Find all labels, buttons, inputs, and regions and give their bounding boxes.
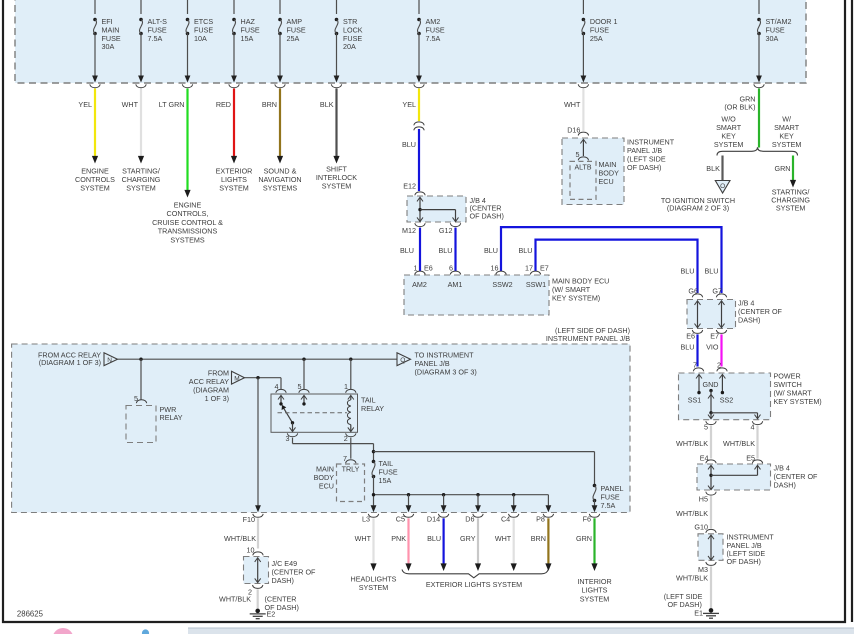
wire GRN from F6 to interior lights	[576, 518, 598, 571]
svg-text:KEY SYSTEM): KEY SYSTEM)	[552, 294, 600, 303]
wire panel fuse to F6	[592, 501, 598, 513]
svg-text:10A: 10A	[194, 34, 207, 43]
INSTRUMENT PANEL J/B big box (left side of dash)	[12, 344, 630, 513]
junction at C4	[512, 493, 515, 496]
svg-text:SYSTEM: SYSTEM	[580, 594, 610, 603]
svg-text:(DIAGRAM 2 OF 3): (DIAGRAM 2 OF 3)	[667, 203, 729, 212]
svg-text:1 OF 3): 1 OF 3)	[205, 394, 229, 403]
wire WHT/BLK pin4 to E5	[723, 426, 757, 459]
diagram frame bottom border	[2, 621, 846, 623]
wire WHT/BLK H5 to G10	[676, 496, 711, 528]
junction to F10	[256, 376, 259, 379]
system label under fuse ETCS FUSE 10A	[152, 201, 223, 245]
svg-text:INSTRUMENT PANEL J/B: INSTRUMENT PANEL J/B	[546, 334, 630, 343]
fuse F9: ST/AM2 FUSE 30A	[754, 0, 792, 88]
svg-text:SYSTEM: SYSTEM	[80, 184, 110, 193]
connector H5	[699, 492, 716, 504]
TAIL RELAY box	[271, 394, 384, 432]
svg-text:D16: D16	[567, 126, 580, 135]
svg-text:E6: E6	[686, 332, 695, 341]
INSTRUMENT PANEL J/B (LEFT SIDE OF DASH) small box	[698, 533, 774, 567]
svg-text:3: 3	[286, 434, 290, 443]
svg-text:LT GRN: LT GRN	[159, 100, 185, 109]
off-page connector O (to ignition switch)	[661, 181, 735, 213]
svg-text:4: 4	[751, 423, 755, 432]
J/B 4 (CENTER OF DASH) lower junction block	[697, 464, 818, 491]
label W/ SMART KEY SYSTEM	[772, 115, 802, 150]
svg-text:AM2: AM2	[412, 280, 427, 289]
svg-text:M12: M12	[402, 226, 416, 235]
label STARTING/CHARGING SYSTEM	[771, 188, 810, 213]
svg-text:WHT/BLK: WHT/BLK	[676, 509, 708, 518]
svg-text:20A: 20A	[343, 42, 356, 51]
svg-text:BLU: BLU	[681, 343, 695, 352]
wire WHT from C4	[495, 518, 517, 571]
wire pin3 to tail fuse	[293, 438, 374, 462]
ground E1	[694, 608, 719, 618]
wire BLU E6 to power switch pin 7	[681, 334, 698, 366]
connector E5	[746, 454, 762, 464]
fuse F2: ALT-S FUSE 7.5A	[136, 0, 167, 88]
svg-text:KEY SYSTEM): KEY SYSTEM)	[774, 397, 822, 406]
svg-text:BLU: BLU	[402, 140, 416, 149]
exit arrow D14	[441, 505, 447, 512]
svg-text:OF DASH): OF DASH)	[727, 557, 761, 566]
svg-text:EXTERIOR LIGHTS SYSTEM: EXTERIOR LIGHTS SYSTEM	[426, 580, 522, 589]
wire pin2 to TRLY pin 7	[350, 438, 352, 459]
connector G12	[439, 223, 461, 235]
svg-text:M: M	[234, 376, 239, 383]
drop wire to C5	[408, 495, 410, 506]
svg-text:2: 2	[344, 434, 348, 443]
connector E4	[700, 454, 716, 464]
connector C5	[396, 514, 414, 523]
svg-text:SYSTEM: SYSTEM	[219, 184, 249, 193]
J/C E49 (CENTER OF DASH) box	[244, 557, 317, 586]
wire WHT/BLK M3 to ground E1	[676, 566, 711, 608]
junction above tail relay pin 1	[349, 358, 352, 361]
junction at D6	[476, 493, 479, 496]
svg-text:7.5A: 7.5A	[148, 34, 163, 43]
svg-text:WHT: WHT	[122, 100, 139, 109]
fuse F7: AM2 FUSE 7.5A	[414, 0, 445, 88]
power switch internals: SS1 SS2 GND	[688, 374, 761, 419]
label (CENTER OF DASH) for E2	[265, 595, 299, 613]
svg-text:GRN: GRN	[775, 164, 791, 173]
junction at C5	[407, 493, 410, 496]
svg-text:E6: E6	[424, 264, 433, 273]
connector pin 4	[751, 421, 763, 431]
main wire from N to Q	[118, 358, 398, 360]
svg-text:YEL: YEL	[402, 100, 416, 109]
pin 2 connector	[344, 433, 356, 443]
system label under fuse STR LOCK FUSE 20A	[316, 165, 357, 191]
svg-text:5: 5	[704, 423, 708, 432]
svg-text:BLK: BLK	[706, 164, 720, 173]
svg-text:(OR BLK): (OR BLK)	[724, 103, 755, 112]
distribution bus below tail fuse	[372, 477, 549, 506]
svg-text:25A: 25A	[287, 34, 300, 43]
PANEL FUSE 7.5A	[593, 484, 624, 510]
wire BLU to E12	[402, 129, 419, 191]
svg-text:WHT/BLK: WHT/BLK	[676, 574, 708, 583]
svg-text:O: O	[720, 183, 725, 190]
svg-text:15A: 15A	[379, 476, 392, 485]
svg-text:SS1: SS1	[688, 396, 702, 405]
TAIL FUSE 15A	[372, 459, 398, 485]
diagram frame left border	[2, 0, 4, 623]
svg-text:BRN: BRN	[531, 534, 546, 543]
junction at D14	[442, 493, 445, 496]
J/B 4 (CENTER OF DASH) middle junction block	[687, 299, 783, 329]
internal pass-through G10-M3	[708, 535, 714, 560]
svg-text:F6: F6	[583, 514, 591, 523]
svg-text:ECU: ECU	[319, 482, 334, 491]
pin 3 connector	[286, 433, 298, 443]
exit arrow P8	[546, 505, 552, 512]
INSTRUMENT PANEL J/B (LEFT SIDE OF DASH) box	[562, 138, 675, 205]
svg-text:Q: Q	[400, 357, 405, 364]
drop wire to P8	[547, 495, 549, 506]
svg-text:SYSTEM: SYSTEM	[359, 583, 389, 592]
fuse F6: STR LOCK FUSE 20A	[331, 0, 362, 88]
drop wire to D6	[477, 495, 479, 506]
svg-text:SYSTEMS: SYSTEMS	[263, 184, 298, 193]
connector F10	[243, 514, 264, 524]
drop wire to C4	[513, 495, 515, 506]
wire WHT/BLK to ground E2	[219, 589, 258, 609]
svg-text:E7: E7	[540, 264, 549, 273]
exit arrow D6	[475, 505, 481, 512]
connector C4	[501, 514, 519, 523]
svg-text:BLU: BLU	[705, 267, 719, 276]
wire BLU from D14	[427, 518, 447, 571]
svg-text:30A: 30A	[766, 34, 779, 43]
svg-text:17: 17	[525, 264, 533, 273]
svg-text:C4: C4	[501, 514, 510, 523]
system label under fuse ALT-S FUSE 7.5A	[122, 167, 161, 193]
label HEADLIGHTS SYSTEM	[351, 575, 397, 593]
PWR RELAY box	[126, 405, 183, 443]
svg-text:ENGINE: ENGINE	[174, 201, 202, 210]
svg-text:SYSTEM: SYSTEM	[776, 204, 806, 213]
pin 6 (AM1)	[448, 264, 463, 290]
svg-text:G12: G12	[439, 226, 453, 235]
svg-text:RELAY: RELAY	[361, 404, 384, 413]
svg-text:WHT/BLK: WHT/BLK	[723, 439, 755, 448]
svg-text:WHT/BLK: WHT/BLK	[219, 595, 251, 604]
svg-text:RED: RED	[216, 100, 231, 109]
connector M3	[698, 562, 716, 574]
svg-text:TRANSMISSIONS: TRANSMISSIONS	[158, 227, 218, 236]
pin 1 E6 (AM2)	[412, 264, 433, 290]
svg-text:GRY: GRY	[460, 534, 476, 543]
connector G6	[688, 287, 702, 298]
wire BLK to ignition switch	[706, 156, 722, 181]
junction above tail relay pin 5	[302, 358, 305, 361]
wire YEL from AM2 fuse	[402, 89, 419, 122]
wire WHT from L3	[355, 518, 377, 571]
wire BLU SSW2 (pin 16)	[484, 227, 721, 293]
ground E2	[250, 609, 276, 619]
exit arrow L3	[371, 505, 377, 512]
svg-text:7.5A: 7.5A	[601, 501, 616, 510]
svg-text:16: 16	[491, 264, 499, 273]
svg-text:BLU: BLU	[439, 246, 453, 255]
wire from M-line down to F10	[255, 378, 261, 513]
diagram frame right border	[844, 0, 846, 623]
svg-text:DASH): DASH)	[774, 481, 796, 490]
connector F6	[583, 514, 600, 523]
svg-text:15A: 15A	[241, 34, 254, 43]
wire YEL from EFI MAIN FUSE 30A	[78, 89, 98, 164]
MAIN BODY ECU (TRLY) box	[314, 464, 365, 502]
svg-text:(DIAGRAM 1 OF 3): (DIAGRAM 1 OF 3)	[39, 358, 101, 367]
wire BLU M12 to AM2 pin 1	[400, 228, 420, 271]
connector P8	[536, 514, 553, 523]
wire BLK from STR LOCK FUSE 20A	[320, 89, 340, 164]
J/B4 internal pass-through G7-E7	[719, 301, 725, 328]
connector L3	[362, 514, 379, 523]
svg-text:E1: E1	[694, 609, 703, 618]
J/B 4 (CENTER OF DASH) upper junction block	[407, 196, 504, 222]
svg-text:H5: H5	[699, 495, 708, 504]
svg-text:SYSTEM: SYSTEM	[322, 182, 352, 191]
svg-text:CRUISE CONTROL &: CRUISE CONTROL &	[152, 218, 223, 227]
svg-text:5: 5	[576, 150, 580, 159]
fuse F5: AMP FUSE 25A	[275, 0, 306, 88]
svg-text:SYSTEM: SYSTEM	[714, 140, 744, 149]
relay mechanical link (dashed)	[278, 412, 348, 414]
svg-text:WHT: WHT	[355, 534, 372, 543]
junction at panel fuse branch	[372, 450, 375, 453]
svg-text:WHT: WHT	[495, 534, 512, 543]
wire to tail relay pin 1	[350, 359, 352, 389]
wire VIO E7 to power switch pin 2	[706, 334, 721, 366]
wire D16 to ALTB pin 5	[580, 139, 586, 156]
fuse F4: HAZ FUSE 15A	[229, 0, 260, 88]
svg-text:SSW2: SSW2	[492, 280, 512, 289]
svg-text:C5: C5	[396, 514, 405, 523]
svg-text:7.5A: 7.5A	[426, 34, 441, 43]
svg-text:OF DASH): OF DASH)	[627, 163, 661, 172]
label W/O SMART KEY SYSTEM	[714, 115, 744, 150]
svg-text:DASH): DASH)	[738, 316, 760, 325]
svg-text:PNK: PNK	[391, 534, 406, 543]
fuse F1: EFI MAIN FUSE 30A	[90, 0, 121, 88]
svg-text:BLU: BLU	[400, 246, 414, 255]
svg-text:SYSTEM: SYSTEM	[772, 140, 802, 149]
pin 1	[344, 382, 356, 393]
svg-text:P8: P8	[536, 514, 545, 523]
pin 5 connector into main body ECU	[576, 150, 589, 160]
svg-text:BLU: BLU	[519, 246, 533, 255]
svg-text:ECU: ECU	[599, 177, 614, 186]
wire WHT from ALT-S FUSE 7.5A	[122, 89, 144, 164]
svg-text:AM1: AM1	[448, 280, 463, 289]
connector 2	[248, 585, 263, 597]
svg-text:D14: D14	[427, 514, 440, 523]
connector G7	[712, 287, 726, 298]
connector D6	[465, 514, 483, 523]
svg-text:YEL: YEL	[78, 100, 92, 109]
svg-text:D6: D6	[465, 514, 474, 523]
svg-text:F10: F10	[243, 515, 255, 524]
exit arrow C5	[406, 505, 412, 512]
wire from M to tail relay pin 4	[245, 378, 282, 390]
pin 7 connector	[693, 361, 704, 372]
wire RED from HAZ FUSE 15A	[216, 89, 237, 164]
svg-text:LIGHTS: LIGHTS	[582, 586, 608, 595]
J/B4 internal E4/E5 to H5	[708, 465, 761, 490]
svg-text:G10: G10	[694, 523, 708, 532]
svg-text:SYSTEM: SYSTEM	[126, 184, 156, 193]
system label under fuse HAZ FUSE 15A	[216, 167, 253, 193]
svg-text:BLK: BLK	[320, 100, 334, 109]
system label under fuse EFI MAIN FUSE 30A	[75, 167, 115, 193]
wire to PWR relay pin 5	[140, 359, 142, 399]
connector G10	[694, 523, 716, 533]
drop wire to D14	[443, 495, 445, 506]
junction to PWR relay	[139, 358, 142, 361]
MAIN BODY ECU (W/ SMART KEY SYSTEM) box	[404, 275, 609, 315]
svg-text:(DIAGRAM 3 OF 3): (DIAGRAM 3 OF 3)	[415, 368, 477, 377]
MAIN BODY ECU inner box (ALTB)	[570, 160, 619, 199]
wire BRN from P8	[531, 518, 552, 571]
J/B4 internal circuit E12 to M12/G12	[417, 197, 459, 221]
connector E12	[403, 182, 425, 196]
svg-text:SSW1: SSW1	[526, 280, 546, 289]
off-page connector Q (to instrument panel J/B, diagram 3 of 3)	[397, 351, 477, 377]
pin 5	[298, 382, 310, 393]
svg-text:L3: L3	[362, 514, 370, 523]
label (LEFT SIDE OF DASH) for E1	[664, 592, 703, 609]
pin 4	[275, 382, 287, 393]
svg-text:SS2: SS2	[720, 396, 734, 405]
internal pass-through 10-2	[255, 558, 261, 583]
wire to tail relay pin 5	[303, 359, 305, 389]
svg-text:SYSTEMS: SYSTEMS	[170, 235, 205, 244]
svg-text:BLU: BLU	[484, 246, 498, 255]
fuse F3: ETCS FUSE 10A	[182, 0, 213, 88]
exit arrow C4	[511, 505, 517, 512]
connector D14	[427, 514, 449, 523]
svg-text:WHT/BLK: WHT/BLK	[224, 534, 256, 543]
wire BLU G12 to AM1 pin 6	[439, 228, 456, 271]
split brace under GRN wire	[717, 147, 798, 155]
svg-text:VIO: VIO	[706, 343, 719, 352]
wire to panel fuse	[374, 452, 595, 486]
wire LT GRN from ETCS FUSE 10A	[159, 89, 191, 198]
svg-text:E12: E12	[403, 182, 416, 191]
fuse F8: DOOR 1 FUSE 25A	[578, 0, 617, 88]
wire GRN to starting/charging	[775, 156, 797, 188]
J/B4 internal pass-through G6-E6	[695, 301, 701, 328]
pin 5 connector of PWR relay	[134, 394, 147, 403]
pin 17 E7 (SSW1)	[525, 264, 549, 290]
svg-text:E2: E2	[267, 610, 276, 619]
connector E7	[710, 330, 726, 341]
svg-text:BRN: BRN	[262, 100, 277, 109]
svg-text:OF DASH): OF DASH)	[470, 212, 504, 221]
svg-text:30A: 30A	[102, 42, 115, 51]
svg-text:CONTROLS,: CONTROLS,	[167, 209, 209, 218]
off-page connector N (from ACC relay, diagram 1 of 3)	[38, 350, 117, 367]
svg-text:BLU: BLU	[681, 267, 695, 276]
wire GRY from D6	[460, 518, 481, 571]
title (LEFT SIDE OF DASH) INSTRUMENT PANEL J/B	[546, 326, 630, 343]
svg-text:E7: E7	[710, 332, 719, 341]
pin 2 connector	[717, 361, 727, 372]
label INTERIOR LIGHTS SYSTEM	[577, 577, 611, 603]
pin 16 (SSW2)	[491, 264, 513, 290]
svg-text:INTERIOR: INTERIOR	[577, 577, 611, 586]
pin 5 stub	[301, 395, 307, 405]
wire BRN from AMP FUSE 25A	[262, 89, 283, 164]
svg-text:GND: GND	[703, 380, 719, 389]
top fuse-box / power distribution box (dashed, cut off at top)	[15, 0, 806, 83]
svg-text:25A: 25A	[590, 34, 603, 43]
wire WHT/BLK pin5 to E4	[676, 426, 711, 459]
system label under fuse AMP FUSE 25A	[258, 167, 301, 193]
relay coil	[347, 395, 353, 431]
inline connector (YEL to BLU)	[414, 122, 424, 130]
wire WHT/BLK F10 to J/C E49	[224, 518, 258, 548]
brace exterior lights system	[402, 570, 548, 578]
connector E6	[686, 330, 702, 341]
svg-text:BLU: BLU	[427, 534, 441, 543]
window edge line	[851, 0, 853, 622]
svg-text:286625: 286625	[17, 610, 44, 619]
relay switch contact	[278, 395, 296, 431]
svg-text:N: N	[107, 357, 112, 364]
svg-text:WHT: WHT	[564, 100, 581, 109]
svg-text:TRLY: TRLY	[342, 465, 360, 474]
connector M12	[402, 223, 425, 235]
wire BLU SSW1 (pin 17)	[519, 240, 698, 293]
wire WHT from DOOR 1 fuse	[564, 89, 583, 132]
svg-text:DASH): DASH)	[272, 576, 294, 585]
bottom toolbar strip	[0, 627, 854, 634]
wire GRN (OR BLK) from ST/AM2 fuse	[724, 89, 759, 148]
wire PNK from C5	[391, 518, 411, 571]
POWER SWITCH (W/ SMART KEY SYSTEM) box	[679, 372, 822, 420]
connector D16	[567, 126, 588, 136]
svg-text:WHT/BLK: WHT/BLK	[676, 439, 708, 448]
connector pin 5	[704, 421, 716, 431]
connector 10	[247, 546, 264, 556]
pin 7 connector (TRLY)	[343, 454, 356, 463]
svg-text:RELAY: RELAY	[160, 413, 183, 422]
svg-text:ALTB: ALTB	[575, 164, 592, 171]
svg-text:GRN: GRN	[576, 534, 592, 543]
off-page connector M (from ACC relay, diagram 1 of 3)	[189, 369, 245, 404]
